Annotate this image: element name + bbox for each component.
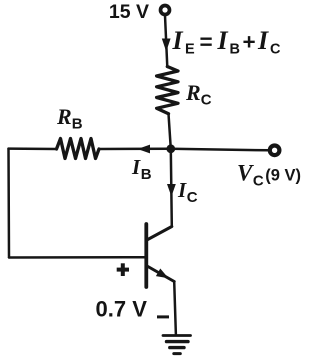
svg-text:+: + <box>243 30 256 55</box>
svg-text:RC: RC <box>185 80 212 109</box>
svg-text:0.7 V: 0.7 V <box>96 297 148 322</box>
svg-text:B: B <box>230 42 240 58</box>
svg-text:VC (9 V): VC (9 V) <box>237 161 301 190</box>
svg-text:I: I <box>172 26 184 55</box>
svg-text:I: I <box>217 26 229 55</box>
svg-text:RB: RB <box>56 104 83 133</box>
svg-text:E: E <box>185 42 195 58</box>
svg-text:IB: IB <box>131 155 152 183</box>
svg-text:=: = <box>200 30 213 55</box>
svg-text:I: I <box>257 26 269 55</box>
svg-text:15 V: 15 V <box>109 1 149 23</box>
svg-text:IC: IC <box>177 178 198 206</box>
svg-text:C: C <box>270 42 281 58</box>
